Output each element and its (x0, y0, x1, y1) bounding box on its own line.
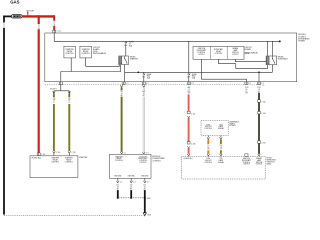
svg-text:FUSED B(+): FUSED B(+) (184, 158, 193, 160)
wire relay2 feeds (267, 41, 272, 56)
connector starter pin 3 (68, 151, 71, 156)
svg-text:EXCEPT: EXCEPT (50, 88, 56, 90)
svg-text:WT: WT (188, 93, 191, 95)
node splice S300 (117, 197, 119, 199)
connector win pin3 (220, 154, 223, 157)
ground G300 (143, 213, 146, 216)
pin box starter relay control 1 (64, 46, 76, 58)
svg-text:C 110: C 110 (56, 152, 60, 154)
svg-text:YL: YL (53, 102, 55, 104)
label circuit board right (245, 47, 258, 55)
svg-text:FUSED B(+): FUSED B(+) (32, 158, 42, 160)
svg-text:CONTROL: CONTROL (65, 53, 74, 55)
svg-text:18: 18 (207, 147, 209, 149)
wire TIPM internal bus (54, 33, 280, 41)
svg-text:18: 18 (117, 187, 119, 189)
svg-text:WT: WT (143, 95, 146, 97)
wire olive stub right (68, 93, 70, 97)
connector win pin1 (187, 154, 190, 157)
svg-text:C 2: C 2 (126, 83, 129, 85)
svg-text:OUTPUT: OUTPUT (198, 54, 205, 56)
wire red vertical to starter (38, 15, 40, 24)
svg-text:STARTER: STARTER (79, 156, 88, 159)
svg-text:C 7: C 7 (249, 83, 252, 85)
svg-text:SERVICEABLE): SERVICEABLE) (245, 52, 258, 55)
svg-text:UNLOCK: UNLOCK (205, 126, 213, 128)
wire ign run/start output to stub (201, 59, 246, 82)
svg-text:BOARD: BOARD (245, 48, 252, 51)
svg-text:12: 12 (188, 89, 190, 91)
component PCM box (110, 154, 152, 178)
connector exit E3 (142, 82, 145, 85)
svg-text:C 2: C 2 (133, 181, 136, 183)
svg-text:C 2: C 2 (147, 181, 150, 183)
wire olive shifter (220, 150, 222, 154)
svg-text:OUTPUT: OUTPUT (256, 164, 263, 166)
wire split bar (54, 85, 69, 94)
connector exit E6 (258, 82, 261, 85)
svg-text:T40: T40 (53, 98, 56, 100)
TIPM connector dashed line (45, 84, 261, 86)
fusible link F1 (11, 15, 22, 18)
connector exit E2 (124, 72, 126, 82)
pin row box right (193, 46, 244, 59)
svg-text:GROUND: GROUND (114, 176, 122, 178)
node junction dot (138, 72, 140, 74)
svg-text:RUN/START: RUN/START (278, 58, 289, 61)
svg-text:C 2: C 2 (191, 83, 194, 85)
svg-text:C 209: C 209 (261, 142, 265, 144)
wire red vertical to TIPM (53, 15, 55, 20)
svg-text:18: 18 (143, 93, 145, 95)
fuse 23 (125, 41, 135, 56)
svg-text:S300: S300 (147, 198, 151, 200)
node WIN dashed box (182, 157, 266, 180)
wire dark mid1 (258, 102, 260, 111)
svg-text:SWITCH: SWITCH (256, 162, 263, 164)
relay K2 run/start (266, 56, 277, 65)
svg-text:CONTROL: CONTROL (115, 160, 123, 162)
wire run/start relay control to coil (219, 59, 268, 68)
svg-text:T41: T41 (120, 91, 123, 93)
component STARTER box (30, 156, 78, 178)
wire coil return bus (61, 65, 121, 72)
svg-text:CONTROL: CONTROL (81, 53, 90, 55)
svg-text:Z12: Z12 (130, 185, 133, 187)
svg-text:T9: T9 (207, 145, 209, 147)
wire red run/start lower (188, 148, 190, 154)
svg-text:CONTROL: CONTROL (204, 162, 212, 164)
connector win pin5 (258, 154, 261, 157)
svg-text:(WIN): (WIN) (267, 163, 272, 165)
svg-text:CONTROL: CONTROL (215, 53, 223, 55)
svg-text:C 308: C 308 (261, 113, 265, 115)
module TIPM box (45, 33, 297, 82)
svg-text:STARTER: STARTER (130, 58, 139, 61)
svg-text:Z12: Z12 (143, 185, 146, 187)
fuse M20 (188, 41, 198, 82)
connector exit E4 (188, 82, 191, 85)
wire splice dashed links (118, 197, 145, 199)
wire bottom dashed run (4, 214, 143, 216)
svg-text:Z1 12 BK: Z1 12 BK (4, 20, 6, 28)
svg-text:C 310: C 310 (191, 113, 195, 115)
svg-text:CONTROL: CONTROL (65, 161, 73, 163)
svg-text:GAS: GAS (10, 0, 19, 5)
svg-text:T140: T140 (245, 87, 249, 89)
wire olive mid (121, 97, 123, 152)
connector pcm pin1 (120, 152, 123, 154)
svg-text:GROUND: GROUND (141, 176, 149, 178)
svg-text:LEVER: LEVER (230, 125, 237, 127)
svg-text:CONTROL: CONTROL (197, 52, 205, 54)
svg-text:18: 18 (121, 93, 123, 95)
wire dark mid2 (258, 114, 260, 141)
wire olive long right (68, 104, 70, 151)
connector TIPM C7 (53, 30, 56, 33)
svg-text:POWER: POWER (298, 41, 305, 43)
svg-text:OUTPUT: OUTPUT (232, 54, 239, 56)
wire olive column shifter (220, 136, 222, 138)
svg-text:18: 18 (130, 187, 132, 189)
label wire code olive mid (120, 85, 123, 87)
wire ground black 1 (117, 190, 119, 198)
svg-text:CONTROL: CONTROL (139, 160, 147, 162)
ground arrow bottom left (3, 213, 5, 216)
svg-text:18: 18 (220, 147, 222, 149)
relay K1 starter (119, 56, 129, 65)
svg-text:C 2: C 2 (261, 83, 264, 85)
connector starter B+ (37, 153, 40, 156)
svg-text:SWITCH: SWITCH (232, 52, 239, 54)
svg-text:18: 18 (246, 89, 248, 91)
connector starter pin 2 (53, 151, 56, 156)
svg-text:BTSI: BTSI (207, 124, 211, 126)
svg-text:12: 12 (68, 100, 70, 102)
svg-text:CONTROL: CONTROL (204, 128, 212, 130)
svg-text:OUTPUT: OUTPUT (243, 164, 250, 166)
connector split right (68, 91, 71, 93)
svg-text:C 2: C 2 (146, 83, 149, 85)
wire ground stub 1 (117, 178, 119, 180)
wire orange (207, 150, 209, 154)
svg-text:Z12: Z12 (116, 185, 119, 187)
label wire code olive shifter (220, 140, 222, 144)
pin box starter relay control 2 (80, 46, 92, 58)
node BATTERY feed (26, 10, 35, 16)
svg-text:OUTPUT: OUTPUT (140, 162, 147, 164)
wire pinbox2 to coil (86, 58, 120, 66)
svg-text:C 110: C 110 (41, 154, 45, 156)
svg-text:GROUND: GROUND (128, 176, 136, 178)
assembly shift lever dashed box (201, 120, 228, 135)
wire relay2 output (271, 65, 273, 73)
connector C208 inline (187, 142, 190, 144)
connector pcm pin2 (143, 152, 146, 154)
wire black battery negative horizontal (4, 15, 11, 17)
svg-text:G300: G300 (147, 214, 151, 216)
wire ground black 2 (130, 190, 132, 198)
svg-text:IGNITION: IGNITION (243, 158, 251, 160)
svg-text:12: 12 (53, 100, 55, 102)
connector C300 inline (258, 100, 261, 102)
wire tap to WIN exit (258, 72, 260, 82)
wire ground stub 2 (130, 178, 132, 180)
svg-text:T10: T10 (220, 145, 223, 147)
wire red run/start mid (188, 118, 190, 142)
svg-text:TRS: TRS (219, 124, 222, 126)
svg-text:18: 18 (144, 187, 146, 189)
label wire code orange (207, 140, 209, 144)
wire ground black 3 (144, 190, 146, 213)
svg-text:SERVICEABLE): SERVICEABLE) (93, 52, 106, 55)
connector C209 inline (258, 141, 261, 143)
label circuit board left (93, 47, 106, 55)
wire white (143, 97, 145, 152)
wire dark upper (258, 93, 260, 100)
connector exit E1 (59, 82, 62, 85)
svg-text:IGNITION: IGNITION (198, 48, 206, 50)
wire pinbox1 to coil bus (70, 58, 72, 72)
svg-text:BTSI: BTSI (207, 158, 211, 160)
wire olive stub left (53, 93, 55, 97)
svg-text:C 2: C 2 (120, 181, 123, 183)
wire relay output long line (125, 65, 273, 73)
svg-text:C 208: C 208 (191, 144, 195, 146)
svg-text:C 300: C 300 (261, 101, 265, 103)
connector C310 inline (187, 111, 190, 113)
pin win ignition run/start (245, 154, 248, 157)
wire black vertical left (3, 16, 5, 23)
label wire code white (143, 85, 146, 87)
svg-text:CONTROL: CONTROL (152, 160, 161, 162)
wire olive long left (53, 104, 55, 151)
connector C308 inline (258, 112, 261, 114)
connector exit E5 stub (245, 82, 248, 85)
wire dark lower (258, 143, 260, 154)
svg-text:T141: T141 (257, 87, 261, 89)
svg-text:CONTROL: CONTROL (51, 161, 59, 163)
wire red battery horizontal (22, 15, 55, 17)
svg-text:CONTROL: CONTROL (243, 162, 251, 164)
wire red run/start upper (188, 94, 190, 111)
wire exit drop left (60, 72, 62, 82)
svg-text:UNLOCK: UNLOCK (205, 160, 213, 162)
wire brake lamp switch to relay (235, 59, 266, 61)
svg-text:18: 18 (258, 89, 260, 91)
svg-text:C 110: C 110 (71, 152, 75, 154)
connector win pin2 (207, 154, 210, 157)
node tap dot (258, 72, 260, 74)
svg-text:TRS: TRS (219, 158, 222, 160)
svg-text:IGNITION: IGNITION (139, 156, 147, 158)
svg-text:T40: T40 (68, 98, 71, 100)
fuse M25 (143, 72, 153, 82)
svg-text:YL: YL (68, 102, 70, 104)
wire orange column (207, 136, 209, 138)
svg-text:C 110: C 110 (57, 31, 61, 33)
wire ground stub 3 (144, 178, 146, 180)
connector split left (53, 91, 56, 93)
node bus end dot (279, 41, 281, 43)
